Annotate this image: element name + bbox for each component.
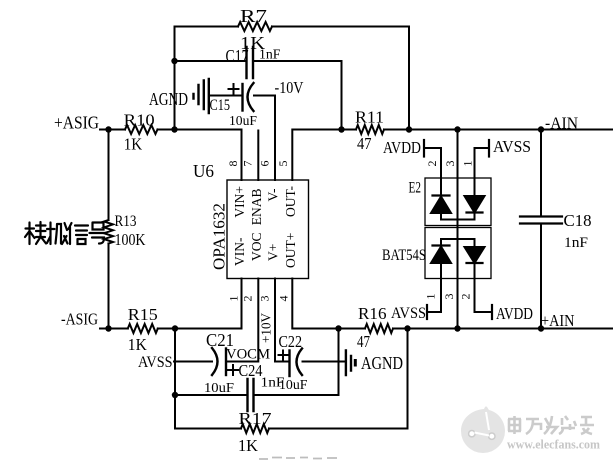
node R17 R16 junction	[404, 325, 410, 331]
wire pin5 to -AIN row	[292, 130, 613, 181]
svg-text:V-: V-	[266, 188, 281, 202]
wire C22 to AGND	[303, 361, 347, 363]
wire rail box1	[441, 219, 475, 221]
chinese label 模拟信号	[25, 222, 107, 244]
ground AGND top symbol	[194, 79, 209, 113]
svg-text:+ASIG: +ASIG	[54, 113, 99, 133]
svg-text:AVSS: AVSS	[391, 305, 426, 322]
svg-text:C15: C15	[210, 97, 231, 114]
svg-text:100K: 100K	[115, 230, 147, 249]
node Ap row junction	[172, 325, 178, 331]
capacitor C22	[290, 349, 303, 377]
node -ASIG junction	[105, 325, 111, 331]
node +ASIG junction	[105, 126, 111, 132]
svg-text:E2: E2	[409, 180, 422, 197]
wire D3 to AVSS hook	[427, 263, 441, 313]
svg-text:1: 1	[227, 296, 241, 302]
wire R17 right vertical	[407, 329, 409, 429]
node E2 pin3 top junction	[454, 126, 460, 132]
node C24 left junction	[172, 392, 178, 398]
bottom caption fragment	[259, 458, 337, 460]
svg-text:OPA1632: OPA1632	[210, 203, 229, 270]
svg-text:1nF: 1nF	[259, 48, 281, 63]
svg-text:AVDD: AVDD	[496, 304, 533, 323]
svg-text:-10V: -10V	[275, 78, 305, 97]
svg-text:C17: C17	[226, 46, 249, 66]
watermark logo	[461, 406, 505, 453]
wire R13 vertical	[108, 130, 110, 329]
svg-text:R17: R17	[239, 409, 273, 428]
svg-text:C24: C24	[239, 361, 263, 380]
svg-text:R7: R7	[240, 6, 267, 26]
svg-text:VOC: VOC	[249, 232, 264, 261]
node A row junction	[171, 126, 177, 132]
svg-text:3: 3	[442, 294, 456, 300]
svg-text:1nF: 1nF	[564, 235, 588, 251]
wire C17 row	[175, 60, 342, 62]
power AVDD top bracket	[423, 140, 425, 157]
svg-text:6: 6	[258, 161, 272, 167]
diode D2	[465, 196, 485, 220]
wire E2 pin3 vertical	[457, 130, 459, 329]
capacitor C17	[247, 47, 254, 78]
svg-text:C22: C22	[279, 332, 303, 351]
svg-text:AVDD: AVDD	[383, 138, 421, 157]
op-amp U6 box	[227, 180, 309, 279]
wire R7 row top	[175, 26, 410, 28]
wire C18 vertical	[540, 130, 542, 329]
wire rail box2	[441, 238, 475, 240]
resistor R17	[241, 424, 269, 433]
svg-text:BAT54S: BAT54S	[382, 247, 426, 264]
node pin5 C17 junction	[338, 126, 344, 132]
capacitor C15	[243, 83, 254, 111]
svg-text:47: 47	[357, 332, 370, 351]
wire D4 to AVDD hook	[475, 263, 493, 312]
svg-text:2: 2	[425, 161, 439, 167]
plus sign C22	[279, 351, 288, 360]
svg-text:R10: R10	[124, 110, 155, 129]
U6 inner pin names	[232, 186, 298, 268]
wire AVSS to C21	[174, 361, 212, 363]
svg-text:1: 1	[424, 294, 438, 300]
resistor R11	[356, 125, 384, 134]
capacitor C21	[212, 348, 226, 375]
wire node Ap vertical	[174, 329, 176, 429]
svg-text:R11: R11	[355, 108, 384, 127]
power AVSS bottom bracket	[426, 305, 428, 319]
diode package E2 box1	[425, 178, 491, 226]
svg-text:5: 5	[276, 161, 290, 167]
node C24 top junction	[335, 325, 341, 331]
svg-text:www.elecfans.com: www.elecfans.com	[507, 437, 600, 452]
svg-text:R16: R16	[358, 304, 387, 323]
wire AVSS hook to E2 pin1	[475, 148, 490, 196]
wire C24 row	[175, 394, 339, 396]
plus sign C21	[228, 365, 238, 375]
pin numbers U6 top	[226, 161, 475, 302]
diode D4	[465, 239, 485, 263]
wire R17 row	[175, 428, 408, 430]
svg-text:+AIN: +AIN	[541, 311, 575, 330]
capacitor C18	[520, 217, 562, 224]
svg-text:R13: R13	[115, 213, 137, 230]
svg-text:10uF: 10uF	[204, 381, 234, 396]
svg-text:R15: R15	[128, 305, 158, 324]
svg-text:C18: C18	[564, 211, 592, 230]
svg-text:AVSS: AVSS	[493, 137, 531, 156]
capacitor C24	[248, 379, 254, 411]
svg-text:1K: 1K	[238, 436, 259, 455]
node C18 bottom junction	[538, 325, 544, 331]
resistor R10	[125, 125, 157, 134]
wire +ASIG row	[100, 130, 242, 181]
plus sign C15	[229, 84, 239, 94]
wire -ASIG row	[100, 279, 242, 329]
svg-text:-ASIG: -ASIG	[61, 310, 98, 329]
node E2 pin3 bottom junction	[454, 325, 460, 331]
svg-text:8: 8	[226, 161, 240, 167]
node C18 top junction	[538, 126, 544, 132]
wire R7 right vertical	[408, 27, 410, 130]
watermark text	[508, 416, 594, 434]
wire AVDD hook to E2 pin2	[424, 148, 441, 196]
wire C17 right vertical	[341, 61, 343, 130]
svg-text:U6: U6	[193, 161, 214, 181]
svg-text:1K: 1K	[124, 135, 143, 154]
svg-text:1K: 1K	[128, 335, 148, 354]
ground AGND bottom symbol	[346, 351, 355, 376]
resistor R13	[104, 220, 113, 244]
wire C15 to pin6	[254, 96, 275, 181]
svg-text:+10V: +10V	[260, 313, 275, 343]
svg-text:10uF: 10uF	[279, 378, 308, 393]
resistor R15	[128, 324, 158, 333]
svg-text:VIN-: VIN-	[232, 237, 247, 266]
diode D3	[431, 239, 451, 263]
svg-text:AGND: AGND	[361, 353, 403, 373]
svg-text:OUT+: OUT+	[283, 233, 298, 268]
diode D1	[431, 196, 451, 220]
diode package E2 box2	[425, 228, 491, 279]
svg-text:3: 3	[258, 296, 272, 302]
wire pin4 to +AIN row	[292, 279, 613, 329]
wire pin7 stub	[257, 131, 259, 181]
resistor R7	[238, 22, 272, 31]
svg-text:V+: V+	[266, 244, 281, 261]
power AVSS top bracket	[488, 140, 490, 157]
svg-text:1: 1	[461, 161, 475, 167]
svg-text:ENAB: ENAB	[249, 189, 264, 226]
svg-text:2: 2	[241, 296, 255, 302]
svg-text:VIN+: VIN+	[232, 186, 247, 218]
svg-text:-AIN: -AIN	[545, 114, 578, 133]
svg-text:47: 47	[357, 134, 372, 153]
wire AGND to C15	[210, 95, 242, 97]
svg-text:AGND: AGND	[149, 89, 188, 109]
resistor R16	[365, 324, 393, 333]
svg-text:AVSS: AVSS	[138, 354, 173, 371]
node A C17 junction	[171, 58, 177, 64]
wire node A vertical left	[174, 27, 176, 130]
svg-text:10uF: 10uF	[229, 113, 257, 128]
power AVDD bottom bracket	[491, 305, 493, 319]
svg-text:2: 2	[459, 294, 473, 300]
svg-text:3: 3	[443, 161, 457, 167]
wire pin2 VOCM stub	[227, 279, 259, 362]
svg-text:4: 4	[277, 296, 291, 302]
node R7 R11 junction	[406, 126, 412, 132]
wire C24 right vertical	[338, 329, 340, 396]
wire pin3 V+	[275, 279, 289, 362]
svg-text:7: 7	[241, 161, 255, 167]
svg-text:OUT-: OUT-	[283, 186, 298, 218]
